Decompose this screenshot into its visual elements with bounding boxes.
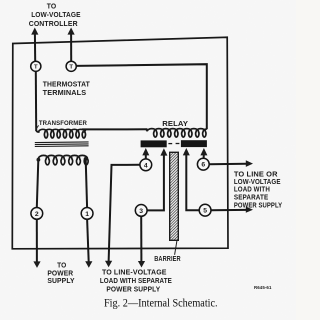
svg-text:TO: TO [57,263,67,270]
svg-text:T: T [34,65,38,71]
svg-text:BARRIER: BARRIER [154,256,181,263]
svg-text:POWER: POWER [47,270,73,277]
svg-text:TO LINE OR: TO LINE OR [234,171,278,178]
svg-text:T: T [69,65,73,71]
svg-text:2: 2 [35,211,39,218]
svg-text:SEPARATE: SEPARATE [234,194,269,201]
svg-text:LOW-VOLTAGE: LOW-VOLTAGE [234,179,281,186]
svg-text:R645-61: R645-61 [254,285,272,290]
svg-text:POWER SUPPLY: POWER SUPPLY [234,202,282,209]
svg-text:4: 4 [144,162,148,169]
svg-text:SUPPLY: SUPPLY [47,278,75,285]
svg-text:RELAY: RELAY [162,121,188,128]
svg-text:LOW-VOLTAGE: LOW-VOLTAGE [31,12,81,19]
svg-text:TRANSFORMER: TRANSFORMER [39,120,87,127]
svg-text:3: 3 [139,208,143,215]
svg-text:THERMOSTAT: THERMOSTAT [43,81,91,88]
svg-text:TO LINE-VOLTAGE: TO LINE-VOLTAGE [102,270,167,277]
svg-text:TERMINALS: TERMINALS [43,90,87,97]
svg-text:POWER SUPPLY: POWER SUPPLY [106,286,160,293]
svg-text:TO: TO [47,3,57,10]
svg-text:6: 6 [201,162,205,169]
svg-text:5: 5 [203,208,207,215]
svg-text:LOAD WITH: LOAD WITH [234,187,270,194]
svg-text:LOAD WITH SEPARATE: LOAD WITH SEPARATE [100,278,172,285]
svg-text:1: 1 [85,211,89,218]
svg-text:Fig. 2—Internal Schematic.: Fig. 2—Internal Schematic. [104,297,218,309]
svg-text:CONTROLLER: CONTROLLER [29,21,78,28]
